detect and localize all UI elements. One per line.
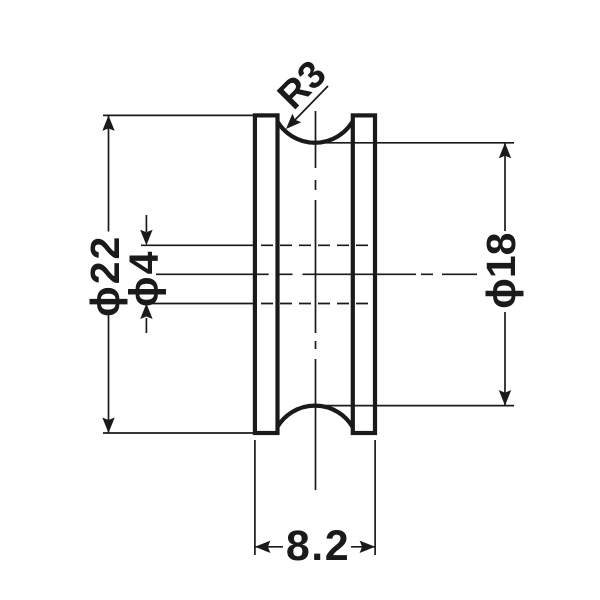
- dim phi18 bottom extension line: [316, 405, 515, 407]
- bore bottom hidden line (dashed part): [261, 303, 373, 305]
- svg-text:ϕ4: ϕ4: [121, 250, 167, 308]
- dim phi18 arrow down: [499, 390, 511, 406]
- dim phi22 top extension line: [103, 114, 253, 116]
- bore bottom hidden line (solid extension part): [141, 303, 255, 305]
- dim 8.2 dimension line left segment: [256, 546, 284, 548]
- svg-text:8.2: 8.2: [286, 522, 350, 570]
- dim phi22 arrow down: [102, 418, 114, 434]
- pulley right flange outline: [353, 115, 375, 433]
- R3 leader line: [293, 86, 328, 122]
- vertical centerline: [315, 111, 317, 490]
- bottom groove arc R3: [278, 406, 353, 427]
- dim phi4 upper arrow (points down to bore line): [145, 215, 147, 232]
- dim phi22 dimension line upper segment: [108, 116, 110, 232]
- dim 8.2 left extension line: [254, 440, 256, 555]
- svg-text:ϕ18: ϕ18: [478, 233, 524, 309]
- dim phi18 dimension line upper segment: [504, 143, 506, 231]
- dim 8.2 arrow right: [360, 541, 376, 553]
- dim phi18 dimension line lower segment: [504, 312, 506, 405]
- dim 8.2 dimension line right segment: [351, 546, 375, 548]
- bore top hidden line (dashed part): [261, 244, 373, 246]
- horizontal centerline: [156, 273, 477, 275]
- dim phi22 arrow up: [102, 115, 114, 130]
- R3 leader arrowhead: [286, 114, 301, 129]
- dim phi18 arrow up: [499, 143, 511, 159]
- dim phi4 lower arrow (points up to bore line): [145, 318, 147, 333]
- pulley left flange outline: [255, 115, 278, 433]
- top groove arc R3: [278, 122, 353, 143]
- dim phi22 bottom extension line: [103, 432, 253, 434]
- dim phi22 dimension line lower segment: [108, 312, 110, 433]
- bore top hidden line (solid extension part): [141, 244, 255, 246]
- dim 8.2 arrow left: [255, 541, 271, 553]
- dim phi18 top extension line: [316, 142, 515, 144]
- dim 8.2 right extension line: [374, 440, 376, 555]
